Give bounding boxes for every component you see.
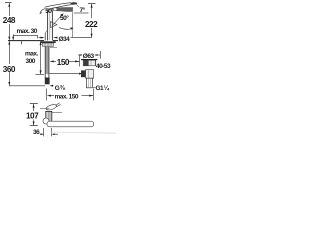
deck line xyxy=(8,40,44,42)
50° arc arrow upper xyxy=(40,9,46,13)
50° lower: arc with arrow xyxy=(59,28,73,30)
50° lower: swing triangle at body xyxy=(51,22,58,28)
lever handle xyxy=(45,2,78,9)
spout xyxy=(53,8,73,12)
shank step tick xyxy=(50,47,57,49)
7° angle reference line xyxy=(74,12,89,14)
Ø34 extension line to right xyxy=(71,37,92,39)
mounting washer and nut below deck xyxy=(40,41,55,43)
svg-text:360: 360 xyxy=(3,65,16,74)
max. 30 leader line xyxy=(13,35,38,37)
Ø63 dimension xyxy=(78,51,100,59)
svg-text:222: 222 xyxy=(85,20,98,29)
max. 300 dimension xyxy=(36,41,45,74)
360 dimension line xyxy=(8,41,10,86)
faint separator line xyxy=(50,132,116,133)
supply hose column xyxy=(45,47,49,78)
50° vertical extension line xyxy=(72,12,74,37)
svg-text:7°: 7° xyxy=(80,6,86,14)
drain connection part (G 1 1/4) xyxy=(81,70,94,88)
max. 150 dimension xyxy=(47,89,94,101)
svg-text:G1: G1 xyxy=(96,85,105,92)
pop-up waste: basin line xyxy=(40,108,50,110)
svg-text:300: 300 xyxy=(26,58,36,65)
pop-up valve body xyxy=(46,111,62,122)
svg-text:150: 150 xyxy=(57,58,70,67)
svg-text:Ø63: Ø63 xyxy=(83,53,95,60)
svg-text:36: 36 xyxy=(33,129,40,136)
faucet body xyxy=(45,9,53,41)
ball joint xyxy=(43,118,49,124)
360 bottom extension line xyxy=(9,85,45,87)
escutcheon flange (Ø63 part) xyxy=(81,60,97,66)
pop-up plug (tilted ellipse) xyxy=(45,103,60,111)
svg-text:248: 248 xyxy=(3,16,16,25)
max. 30 arrow to deck xyxy=(12,37,14,41)
36 dimension xyxy=(40,133,58,135)
svg-text:40-53: 40-53 xyxy=(96,63,111,70)
248 dimension line xyxy=(5,3,12,41)
svg-text:Ø34: Ø34 xyxy=(59,36,71,43)
svg-text:max. 30: max. 30 xyxy=(17,28,38,35)
svg-text:max.: max. xyxy=(25,51,39,58)
leader line from hose to drain part xyxy=(49,73,78,75)
150 dimension xyxy=(50,56,80,67)
svg-text:max. 150: max. 150 xyxy=(55,94,79,101)
107 dimension xyxy=(30,104,38,126)
horizontal actuating rod xyxy=(47,121,94,127)
svg-text:107: 107 xyxy=(26,112,39,121)
rod extension lines down xyxy=(43,128,45,136)
hose end fitting xyxy=(45,78,50,85)
222 dimension xyxy=(88,4,96,38)
deck tick below xyxy=(21,41,23,44)
svg-text:50°: 50° xyxy=(45,7,54,15)
Ø34 dimension arrows xyxy=(41,37,45,39)
G 3/8 label xyxy=(50,85,53,87)
50° lower: diagonal swing line with arrow xyxy=(53,16,62,26)
